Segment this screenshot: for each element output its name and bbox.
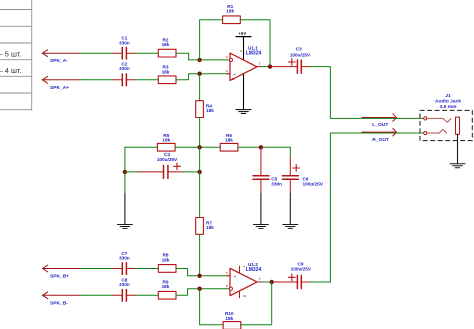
power +5V: [236, 31, 251, 53]
svg-text:Audio Jack: Audio Jack: [435, 99, 461, 105]
svg-text:— 4 шт.: — 4 шт.: [0, 66, 22, 75]
connector J1 audio jack: [420, 93, 472, 140]
svg-text:11: 11: [232, 77, 235, 81]
resistor R1: [223, 4, 241, 24]
wire op-amp output stub: [257, 66, 262, 68]
hierarchical label SPK_B-: [43, 292, 81, 299]
jack pin circle ring: [424, 131, 427, 134]
svg-text:330n: 330n: [119, 66, 130, 71]
capacitor C1: [113, 36, 136, 59]
svg-text:100u/25V: 100u/25V: [157, 157, 178, 162]
resistor R8: [158, 253, 176, 273]
svg-text:18k: 18k: [162, 69, 170, 74]
capacitor C3: [272, 46, 311, 73]
wire SPK_B- to C8: [81, 294, 113, 296]
svg-text:LM324: LM324: [246, 51, 262, 57]
wire C3 to L_OUT run: [311, 67, 425, 119]
capacitor C5: [253, 147, 282, 193]
hierarchical label SPK_B+: [43, 265, 81, 272]
wire R10 to output junction: [241, 282, 272, 325]
wire R7 to U1.2 non-inverting node: [199, 234, 201, 275]
wire feedback up to R1: [200, 20, 223, 60]
junction node U1.2 output: [270, 280, 274, 284]
svg-text:18k: 18k: [206, 225, 214, 230]
svg-text:18k: 18k: [206, 108, 214, 113]
junction node C4 left: [123, 170, 127, 174]
resistor R3: [158, 65, 176, 84]
svg-text:100u/25V: 100u/25V: [291, 267, 312, 272]
svg-text:+5V: +5V: [238, 31, 246, 36]
ground below C5: [253, 193, 268, 228]
svg-text:330n: 330n: [119, 40, 130, 45]
pin stub U1.1 pin 3: [227, 73, 230, 75]
wire C7 to R8: [136, 268, 159, 270]
wire node to op-amp pin 5: [200, 275, 230, 277]
svg-text:18k: 18k: [162, 257, 170, 262]
resistor R4: [196, 101, 215, 118]
svg-text:LM324: LM324: [246, 267, 262, 273]
ground below C4 left: [117, 193, 132, 228]
wire jack sleeve to ground: [457, 134, 459, 163]
ground under U1.1: [236, 110, 251, 114]
svg-text:18k: 18k: [162, 284, 170, 289]
wire C8 to R9: [136, 294, 159, 296]
resistor R2: [158, 37, 176, 57]
svg-text:18k: 18k: [225, 138, 233, 143]
table (BOM, top-left, cut off at image edge): [0, 0, 32, 110]
wire R8 to U1.2 non-inverting node (jog): [176, 269, 200, 276]
resistor R6: [220, 133, 238, 151]
wire R4 branch down: [199, 74, 201, 101]
pin stub U1.2 pin 5: [227, 275, 230, 277]
svg-text:18k: 18k: [226, 9, 234, 14]
wire bias to C6 corner: [289, 147, 291, 158]
wire node to op-amp pin 3: [200, 73, 230, 75]
svg-text:330n: 330n: [271, 181, 282, 186]
wire SPK_A+ to C2: [81, 79, 113, 81]
resistor R7: [196, 218, 215, 235]
bias rail left segment: [125, 146, 157, 148]
wire R1 to output node: [240, 20, 270, 67]
resistor R9: [158, 280, 176, 300]
svg-text:SPK_A+: SPK_A+: [50, 85, 69, 91]
wire SPK_A- to C1: [81, 52, 113, 54]
op-amp U1.2: [226, 262, 262, 298]
wire R9 to U1.2 inverting node (jog): [176, 289, 200, 296]
hierarchical label SPK_A-: [42, 50, 80, 57]
wire feedback R10 path: [200, 289, 224, 325]
svg-text:SPK_A-: SPK_A-: [50, 58, 68, 64]
svg-text:R_OUT: R_OUT: [372, 137, 389, 143]
resistor R10: [223, 311, 241, 329]
wire output to junction: [262, 66, 272, 68]
ground under jack: [450, 164, 465, 168]
jack pin circle tip: [424, 117, 427, 120]
svg-text:+: +: [234, 275, 236, 279]
hierarchical label R_OUT: [362, 128, 397, 136]
op-amp U1.1: [226, 46, 262, 81]
wire bias left down: [124, 147, 126, 193]
capacitor C6: [282, 158, 323, 193]
wire node to op-amp pin 2: [200, 59, 229, 61]
capacitor C9: [274, 262, 312, 289]
wire node to op-amp pin 6: [200, 288, 229, 290]
junction node C4 right: [197, 170, 201, 174]
ground below C6: [283, 193, 298, 228]
wire R3 to non-inverting node (jog): [176, 74, 200, 80]
hierarchical label SPK_A+: [42, 76, 80, 83]
wire output to junction: [262, 281, 274, 283]
svg-text:18k: 18k: [162, 42, 170, 47]
wire R4 to bias rail: [199, 118, 201, 148]
capacitor C4: [138, 152, 183, 178]
junction node U1.1 output: [268, 64, 272, 68]
svg-text:J1: J1: [445, 93, 451, 99]
jack sleeve plug: [456, 117, 460, 134]
wire R5 to center node: [175, 146, 220, 148]
jack tip contact: [427, 118, 452, 122]
svg-text:— 5 шт.: — 5 шт.: [0, 49, 22, 58]
junction node U1.2 non-inverting input: [197, 274, 201, 278]
wire C4 branch left: [125, 171, 138, 173]
wire op-amp U1.2 output stub: [257, 281, 262, 283]
junction node U1.1 inverting input: [197, 58, 201, 62]
junction node bias center: [197, 145, 201, 149]
wire C9 to R_OUT run: [311, 133, 425, 282]
wire R6 to C5/C6: [238, 146, 290, 148]
wire C2 to R3: [136, 79, 159, 81]
svg-text:3.5 mm: 3.5 mm: [440, 104, 458, 110]
junction node U1.1 non-inverting input: [197, 72, 201, 76]
capacitor C7: [113, 251, 136, 274]
capacitor C2: [113, 62, 136, 86]
svg-text:SPK_B+: SPK_B+: [50, 274, 69, 280]
svg-text:L_OUT: L_OUT: [372, 122, 388, 128]
svg-text:11: 11: [243, 294, 246, 298]
wire C1 to R2: [136, 52, 159, 54]
svg-text:C3: C3: [296, 46, 302, 51]
svg-text:18k: 18k: [162, 138, 170, 143]
capacitor C8: [113, 278, 136, 302]
wire C4 right to center vertical: [183, 171, 200, 173]
resistor R5: [157, 133, 175, 151]
op-amp U1.1 supply line through symbol: [243, 53, 245, 109]
svg-text:18k: 18k: [225, 316, 233, 321]
svg-text:330n: 330n: [119, 282, 130, 287]
jack ring contact: [427, 129, 447, 133]
svg-text:330n: 330n: [119, 256, 130, 261]
wire SPK_B+ to C7: [81, 268, 113, 270]
wire center vertical to R7: [199, 147, 201, 217]
junction node U1.2 inverting input: [197, 287, 201, 291]
wire R2 to inverting node (jog): [176, 53, 200, 60]
hierarchical label L_OUT: [362, 114, 397, 122]
svg-text:100u/25V: 100u/25V: [303, 181, 324, 186]
svg-text:100u/25V: 100u/25V: [290, 52, 311, 57]
svg-text:SPK_B-: SPK_B-: [50, 300, 68, 306]
junction node C5 top: [259, 145, 263, 149]
